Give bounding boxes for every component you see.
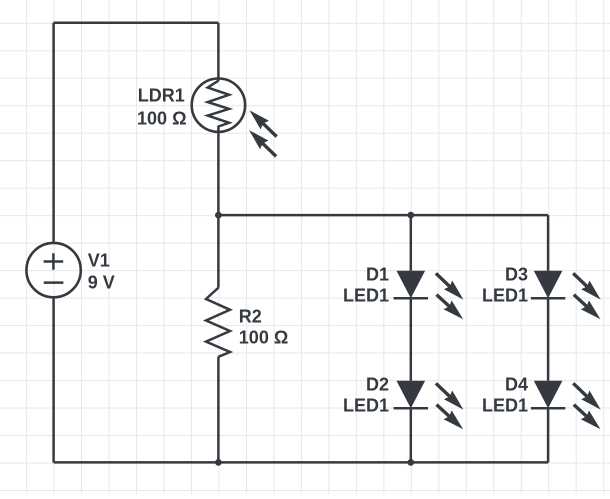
wire D4 to bottom corner — [547, 408, 550, 462]
LED D2 — [394, 381, 464, 430]
svg-text:D4: D4 — [505, 375, 528, 395]
wire D2 to bottom node — [410, 408, 413, 462]
node bottom right junction — [407, 459, 414, 466]
svg-text:LED1: LED1 — [343, 286, 389, 306]
wire D3 to D4 — [547, 298, 550, 381]
wire bus to D3 — [547, 215, 550, 271]
wire bottom — [54, 461, 548, 464]
LED D4 — [531, 381, 601, 430]
photoresistor LDR1 — [192, 79, 277, 157]
wire node A to R2 — [217, 215, 220, 288]
LED D1 — [394, 271, 464, 320]
node B junction — [407, 212, 414, 219]
node bottom middle junction — [215, 459, 222, 466]
svg-text:LED1: LED1 — [482, 396, 528, 416]
wire node B to D1 — [410, 215, 413, 271]
wire left upper — [52, 23, 55, 243]
svg-text:100 Ω: 100 Ω — [137, 108, 186, 128]
wire left lower — [52, 297, 55, 462]
node A junction — [215, 212, 222, 219]
wire middle upper — [217, 23, 220, 81]
wire middle from LDR1 to node A — [217, 126, 220, 215]
svg-text:LED1: LED1 — [482, 286, 528, 306]
svg-text:100 Ω: 100 Ω — [239, 327, 288, 347]
resistor R2 — [206, 288, 230, 357]
voltage source V1 — [26, 243, 80, 297]
wire D1 to D2 — [410, 298, 413, 381]
wire top — [54, 22, 219, 25]
LED D3 — [531, 271, 601, 320]
wire bus top — [218, 214, 548, 217]
svg-text:V1: V1 — [88, 251, 110, 271]
svg-text:D3: D3 — [505, 265, 528, 285]
svg-text:LDR1: LDR1 — [138, 86, 185, 106]
svg-text:D2: D2 — [366, 375, 389, 395]
svg-text:D1: D1 — [366, 265, 389, 285]
svg-text:R2: R2 — [239, 306, 262, 326]
wire R2 to bottom node — [217, 357, 220, 463]
svg-text:LED1: LED1 — [343, 396, 389, 416]
svg-text:9 V: 9 V — [88, 273, 115, 293]
